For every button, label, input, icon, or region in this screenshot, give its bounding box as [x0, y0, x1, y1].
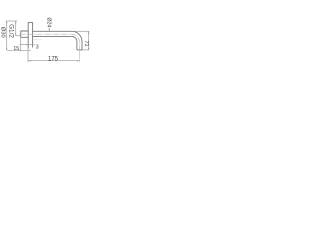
right dim line 71	[88, 31, 90, 50]
nipple left edge	[20, 31, 22, 37]
15 arrows	[19, 50, 21, 51]
svg-text:Ø24: Ø24	[45, 17, 51, 27]
3 arrows	[26, 44, 28, 45]
tube bottom edge	[33, 35, 72, 37]
dim line 15	[7, 49, 29, 51]
left top tick	[6, 20, 18, 22]
svg-text:Ø30: Ø30	[0, 27, 5, 38]
ghost shadow under tube base	[33, 38, 42, 40]
wall face vertical	[27, 22, 29, 48]
outlet right edge	[81, 42, 83, 50]
mid tick B	[16, 35, 21, 37]
centerline dash-dot	[20, 34, 80, 50]
svg-text:G1/2: G1/2	[8, 24, 15, 38]
O24 arrow	[49, 29, 50, 31]
left dim arrows	[6, 21, 7, 23]
175 arrows	[28, 60, 31, 62]
bend outer arc	[72, 31, 82, 41]
left dim vert A	[6, 21, 8, 50]
tube top edge	[33, 30, 72, 32]
wall extension to 175 dim	[27, 49, 29, 63]
outlet center extension	[78, 50, 80, 62]
svg-text:71: 71	[83, 41, 89, 47]
bend inner arc	[72, 36, 77, 41]
nipple G1/2 rect	[21, 31, 29, 37]
dim line 3	[20, 44, 33, 46]
bottom dim line 175	[28, 60, 79, 62]
nipple left extension line	[20, 37, 22, 51]
escutcheon top edge	[28, 21, 32, 23]
outlet bottom right extension	[82, 49, 89, 51]
escutcheon front vertical	[32, 22, 34, 47]
71 arrows	[88, 31, 90, 34]
svg-text:3: 3	[36, 45, 39, 51]
outlet left edge	[76, 42, 78, 50]
leader for O24	[48, 28, 50, 32]
mid dim vert B	[15, 21, 17, 36]
svg-text:175: 175	[48, 57, 59, 63]
dimension texts	[0, 17, 89, 62]
arrowheads	[6, 21, 89, 61]
right top extension tick	[74, 30, 89, 32]
svg-text:15: 15	[13, 46, 19, 52]
outlet bottom edge	[77, 49, 82, 51]
